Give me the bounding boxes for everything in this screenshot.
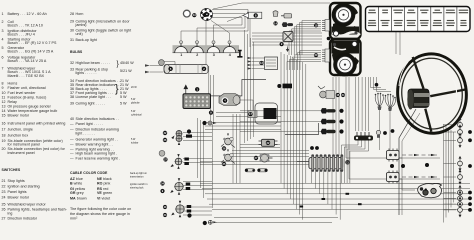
- svg-text:26: 26: [2, 208, 6, 212]
- svg-text:Relay: Relay: [8, 100, 18, 104]
- svg-text:RS red: RS red: [97, 187, 108, 191]
- svg-text:Instrument panel with printed: Instrument panel with printed wiring: [8, 122, 66, 126]
- svg-text:Horn: Horn: [76, 12, 84, 16]
- wire: ceiling chain links: [399, 157, 440, 159]
- junction box 18: [277, 84, 292, 89]
- svg-text:NE black: NE black: [97, 177, 112, 181]
- rear parking lamp 33b: [458, 125, 472, 139]
- svg-text:7: 7: [2, 66, 4, 70]
- svg-text:—: —: [70, 122, 74, 126]
- rear direction indicator 35: [458, 133, 472, 147]
- wire: main vertical bundle under panel: [280, 52, 282, 183]
- connector block 22: [259, 139, 278, 146]
- junction point battery cable: [207, 94, 210, 97]
- dashed beam upper: [402, 154, 437, 156]
- svg-text:Panel lights: Panel lights: [8, 190, 27, 194]
- svg-text:tubular: tubular: [131, 142, 139, 145]
- wire: engine harness to panel: [252, 32, 322, 34]
- svg-text:BULBS: BULBS: [70, 50, 83, 54]
- door jamb switch 29 upper: [387, 149, 400, 162]
- oil pressure sender ring: [183, 10, 190, 17]
- svg-text:B white: B white: [70, 182, 82, 186]
- rear lamp cluster a: [458, 186, 472, 200]
- svg-text:—: —: [70, 137, 74, 141]
- svg-text:Panel light . . . .: Panel light . . . . .: [76, 122, 104, 126]
- steering wheel: [394, 51, 469, 136]
- wire: coil feed verticals: [210, 75, 212, 124]
- bolt connector 1: [321, 108, 344, 113]
- svg-text:Oil pressure gauge sender: Oil pressure gauge sender: [8, 104, 52, 108]
- blower motor 15: [318, 86, 345, 99]
- rear lamp cluster c: [458, 197, 472, 211]
- junction block 17: [248, 111, 257, 118]
- starting motor M1: [219, 94, 240, 106]
- rear stop lamp 33a: [458, 118, 463, 132]
- svg-text:Generator warning light . .: Generator warning light . .: [76, 137, 118, 141]
- wire: coil HT lead: [205, 21, 207, 64]
- svg-text:—: —: [70, 152, 74, 156]
- comb feed dots: [314, 23, 318, 27]
- svg-text:Stop lights: Stop lights: [8, 179, 25, 183]
- svg-text:5 W: 5 W: [131, 110, 136, 113]
- svg-text:6: 6: [2, 56, 4, 60]
- svg-text:4: 4: [229, 53, 231, 57]
- svg-text:40: 40: [70, 117, 74, 121]
- lighting switch 26: [221, 134, 235, 151]
- svg-text:24: 24: [2, 195, 6, 199]
- wire: bottom harness band: [200, 182, 470, 184]
- svg-text:3: 3: [2, 29, 4, 33]
- svg-text:Flasher unit, directional: Flasher unit, directional: [8, 86, 46, 90]
- svg-text:back-up light on: back-up light on: [130, 172, 148, 175]
- steering column claw connector A: [375, 93, 384, 150]
- svg-text:1: 1: [180, 53, 182, 57]
- svg-text:for instrument panel: for instrument panel: [8, 143, 41, 147]
- svg-text:33: 33: [70, 68, 74, 72]
- svg-text:Marelli . . . TGE 92: Marelli . . . TGE 92 BX: [8, 74, 45, 78]
- svg-text:High/low beam . . . .: High/low beam . . . . .: [76, 61, 111, 65]
- svg-text:5 W: 5 W: [120, 102, 127, 106]
- wire: cluster feeds down right: [346, 77, 402, 158]
- svg-text:SWITCHES: SWITCHES: [2, 168, 21, 172]
- svg-text:lights . . . . .: lights . . . . . .: [76, 71, 97, 75]
- ignition distributor U3: [201, 8, 213, 20]
- indicator bulb at column: [376, 130, 380, 138]
- wire: horn leads: [227, 16, 243, 22]
- wire: bundle cross feeds: [205, 122, 281, 124]
- ceiling light fixture 30: [255, 103, 278, 124]
- regulator lead arrows: [145, 64, 150, 73]
- svg-text:5 W: 5 W: [131, 98, 136, 101]
- svg-text:2: 2: [2, 20, 4, 24]
- svg-text:Ceiling light . . .: Ceiling light . . . . .: [76, 102, 105, 106]
- svg-text:the diagram shows the wire: the diagram shows the wire gauge in: [70, 212, 130, 216]
- legend column 1: [2, 12, 68, 220]
- battery B1: [183, 85, 211, 108]
- junction dot at column top: [375, 83, 379, 87]
- svg-text:VE green: VE green: [97, 191, 112, 195]
- door jamb switch 29 lower: [387, 171, 400, 184]
- bolt connector 2: [321, 119, 344, 124]
- svg-text:27: 27: [2, 216, 6, 220]
- steering column claw connector B: [385, 94, 396, 150]
- rear lamp cluster d: [458, 203, 472, 217]
- svg-text:19: 19: [2, 139, 6, 143]
- wire: heavy junction bends: [285, 123, 319, 135]
- svg-text:3: 3: [213, 53, 215, 57]
- wire: ignition feed along top: [213, 3, 330, 9]
- svg-text:—: —: [70, 142, 74, 146]
- svg-text:Blower motor: Blower motor: [8, 195, 30, 199]
- svg-text:8: 8: [2, 81, 4, 85]
- bolt connector 3: [321, 129, 344, 134]
- junction dot 10: [327, 37, 331, 41]
- wire: steering column shaft: [399, 109, 416, 215]
- wire: junction row links: [216, 112, 248, 114]
- junction dots near column: [383, 129, 429, 168]
- wire: panel-to-steering nested bends: [355, 77, 357, 131]
- svg-text:5/21 W: 5/21 W: [120, 69, 132, 73]
- junction dot right mid: [468, 164, 472, 168]
- svg-text:Bosch . . . JFU 4: Bosch . . . JFU 4: [8, 33, 35, 37]
- svg-text:Parking light warning . .: Parking light warning . .: [76, 147, 114, 151]
- svg-text:10: 10: [2, 91, 6, 95]
- svg-text:29: 29: [70, 20, 74, 24]
- svg-text:Parking lights, headlamps and: Parking lights, headlamps and flash-: [8, 208, 68, 212]
- relay 12: [259, 57, 277, 70]
- svg-text:18: 18: [2, 133, 6, 137]
- bolt junction: [282, 22, 293, 27]
- svg-text:unit): unit): [76, 32, 83, 36]
- svg-text:cylindrical: cylindrical: [131, 114, 142, 117]
- svg-text:mm²: mm²: [70, 217, 78, 221]
- wire: panel comb nested bends lower: [300, 51, 321, 71]
- svg-text:Bosch . . . EG (R) 14 V: Bosch . . . EG (R) 14 V 25 A: [8, 49, 54, 53]
- dashed beam lower: [402, 176, 437, 178]
- svg-text:License plate light . .: License plate light . . .: [76, 95, 112, 99]
- svg-text:VI violet: VI violet: [97, 197, 110, 201]
- wire: engine harness verticals: [244, 30, 246, 143]
- wire: bolt connector feeds: [240, 110, 321, 112]
- svg-text:Fuel level sender: Fuel level sender: [8, 91, 37, 95]
- oil pressure sender 13: [281, 14, 292, 19]
- six-blade connector 19: [322, 20, 330, 32]
- harness connector tabs: [300, 193, 362, 208]
- svg-text:17: 17: [2, 128, 6, 132]
- svg-text:4: 4: [2, 38, 4, 42]
- junction dot below connector: [187, 213, 191, 217]
- svg-text:22: 22: [2, 185, 6, 189]
- side direction indicator 40: [163, 201, 191, 217]
- generator G: [159, 60, 165, 66]
- wire: fusebox feeders down: [311, 170, 313, 183]
- junction dot 13: [192, 13, 196, 17]
- svg-text:Junction, single: Junction, single: [8, 128, 33, 132]
- svg-text:5 W: 5 W: [131, 138, 136, 141]
- ignition switch rosette 27: [254, 154, 273, 162]
- svg-text:Battery . . . 12 V -: Battery . . . 12 V - 60 Ah: [8, 12, 47, 16]
- front parking lamp 37: [163, 154, 189, 169]
- svg-text:15: 15: [2, 114, 6, 118]
- wire: generator/battery leads: [164, 62, 175, 65]
- wire: right side verticals: [443, 124, 445, 223]
- svg-text:5 W: 5 W: [120, 95, 127, 99]
- svg-text:30: 30: [70, 28, 74, 32]
- svg-text:16: 16: [2, 122, 6, 126]
- svg-text:Ignition and starting: Ignition and starting: [8, 185, 40, 189]
- wire: left lamp feeds: [183, 132, 212, 134]
- column connector strip: [354, 132, 373, 141]
- fusebox 11: [309, 154, 350, 171]
- license plate lamp 38: [458, 170, 463, 184]
- svg-text:ing: ing: [8, 212, 13, 216]
- instrument panel 16: [330, 3, 361, 75]
- svg-text:Horns: Horns: [8, 81, 18, 85]
- wire: starter to junction: [240, 100, 253, 110]
- svg-text:28: 28: [70, 12, 74, 16]
- wire: left lamp bundle verticals: [197, 118, 199, 178]
- bulb icon tubular: [159, 150, 165, 156]
- svg-text:31: 31: [70, 38, 74, 42]
- svg-text:2: 2: [196, 53, 198, 57]
- svg-text:transmission: transmission: [130, 176, 144, 179]
- svg-text:Water temperature gauge bulb: Water temperature gauge bulb: [8, 109, 58, 113]
- wire: distributor HT loops to spark plugs: [181, 10, 248, 41]
- svg-text:11: 11: [2, 95, 6, 99]
- svg-text:25: 25: [2, 202, 6, 206]
- svg-text:Back-up light: Back-up light: [76, 38, 97, 42]
- six-blade connector 20: [322, 49, 330, 62]
- svg-text:instrument panel: instrument panel: [8, 151, 35, 155]
- cylinder head with spark plugs: [173, 41, 240, 57]
- relay lead arrows: [248, 57, 265, 70]
- svg-text:globular: globular: [131, 102, 140, 105]
- svg-text:RO pink: RO pink: [97, 182, 110, 186]
- svg-text:Windshield wiper motor: Windshield wiper motor: [8, 202, 47, 206]
- fuse assignment table: [366, 7, 471, 32]
- svg-text:High beam warning light .: High beam warning light .: [76, 152, 118, 156]
- svg-text:AZ blue: AZ blue: [70, 177, 83, 181]
- svg-text:9: 9: [2, 86, 4, 90]
- svg-text:MA brown: MA brown: [70, 197, 87, 201]
- svg-text:12: 12: [2, 100, 6, 104]
- svg-text:ignition switch in: ignition switch in: [130, 183, 148, 186]
- svg-text:GI yellow: GI yellow: [70, 187, 86, 191]
- svg-text:Blower warning light . .: Blower warning light . .: [76, 142, 113, 146]
- back-up lamp 36: [458, 157, 463, 171]
- svg-text:39: 39: [70, 102, 74, 106]
- svg-text:—: —: [70, 127, 74, 131]
- svg-text:—: —: [70, 156, 74, 160]
- svg-text:13: 13: [2, 104, 6, 108]
- wire: right lamp branches: [444, 124, 457, 126]
- svg-text:Ceiling light (toggle switch o: Ceiling light (toggle switch on light: [76, 28, 132, 32]
- wire: panel comb nested bends upper: [302, 21, 321, 56]
- svg-text:Direction indicator: Direction indicator: [8, 216, 38, 220]
- svg-text:Blower motor: Blower motor: [8, 114, 30, 118]
- junction dot 9: [209, 111, 213, 115]
- ignition coil L1: [164, 65, 208, 74]
- horn H1: [243, 12, 262, 18]
- svg-text:23: 23: [2, 190, 6, 194]
- svg-text:light . . . . .: light . . . . . .: [76, 131, 95, 135]
- legend column 2: [70, 12, 134, 221]
- front side marker lamp: [202, 121, 216, 125]
- water temperature sender 14: [273, 11, 278, 26]
- fusebox feed dots: [310, 146, 319, 150]
- ceiling light unit 39: [418, 183, 442, 197]
- svg-text:Junction box: Junction box: [8, 133, 29, 137]
- front direction indicator 34: [160, 178, 190, 194]
- wiper switch 25: [221, 150, 235, 167]
- side marker lamp: [203, 220, 217, 225]
- svg-text:Bosch . . . EF (R) 12 V: Bosch . . . EF (R) 12 V 0.7 PS: [8, 41, 57, 45]
- svg-text:Fusebox (8-amp. fuses): Fusebox (8-amp. fuses): [8, 95, 47, 99]
- svg-text:Bosch . . . VA 14 V: Bosch . . . VA 14 V 25 A: [8, 59, 47, 63]
- svg-text:Bosch . . . TK 12 A: Bosch . . . TK 12 A 10: [8, 24, 43, 28]
- ground strap mark: [237, 51, 242, 57]
- svg-text:45/40 W: 45/40 W: [120, 61, 134, 65]
- svg-text:14: 14: [2, 109, 6, 113]
- wire: cluster to fusebox verticals: [332, 77, 334, 156]
- svg-text:20 W: 20 W: [131, 86, 137, 89]
- svg-text:20: 20: [2, 147, 6, 151]
- wire: mid horizontals to fusebox: [232, 150, 309, 152]
- wire: bends to hub claw: [371, 77, 382, 88]
- svg-text:The figure following the c: The figure following the color code on: [70, 207, 131, 211]
- svg-text:GR grey: GR grey: [70, 191, 84, 195]
- wire: column feeds above wheel: [395, 32, 397, 55]
- flasher unit 9: [280, 32, 294, 53]
- svg-text:21: 21: [2, 179, 6, 183]
- steering hub: [407, 89, 429, 110]
- svg-text:—: —: [70, 147, 74, 151]
- cigar junction pair: [245, 169, 268, 172]
- svg-text:32: 32: [70, 61, 74, 65]
- schematic margin labels: [130, 86, 148, 190]
- svg-text:Fuel reserve warning light .: Fuel reserve warning light .: [76, 156, 120, 160]
- svg-text:jambs): jambs): [75, 23, 87, 27]
- svg-text:CABLE COLOR CODE: CABLE COLOR CODE: [70, 171, 108, 175]
- wire: strip fan to left bundle: [342, 141, 359, 184]
- svg-text:1: 1: [2, 12, 4, 16]
- svg-text:steering lock: steering lock: [130, 187, 144, 190]
- rear lamp cluster b: [458, 191, 472, 205]
- svg-text:Side direction indicators .: Side direction indicators . .: [76, 117, 119, 121]
- svg-text:5: 5: [2, 46, 4, 50]
- svg-text:38: 38: [70, 95, 74, 99]
- headlamp left 32: [163, 129, 192, 145]
